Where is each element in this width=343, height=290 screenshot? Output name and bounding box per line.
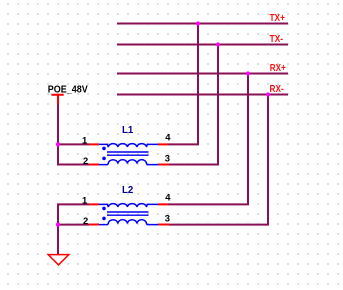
- svg-text:POE_48V: POE_48V: [48, 84, 88, 95]
- svg-text:3: 3: [165, 213, 170, 224]
- svg-text:3: 3: [165, 153, 170, 164]
- svg-text:4: 4: [165, 132, 171, 143]
- svg-text:L1: L1: [122, 125, 134, 136]
- svg-text:L2: L2: [122, 185, 134, 196]
- svg-text:TX+: TX+: [270, 13, 286, 24]
- svg-text:2: 2: [83, 215, 88, 226]
- svg-text:1: 1: [82, 195, 87, 206]
- svg-text:RX+: RX+: [270, 63, 286, 74]
- svg-text:4: 4: [165, 192, 171, 203]
- svg-text:RX-: RX-: [270, 84, 284, 95]
- svg-text:2: 2: [83, 155, 88, 166]
- svg-text:1: 1: [82, 135, 87, 146]
- svg-text:TX-: TX-: [270, 34, 284, 45]
